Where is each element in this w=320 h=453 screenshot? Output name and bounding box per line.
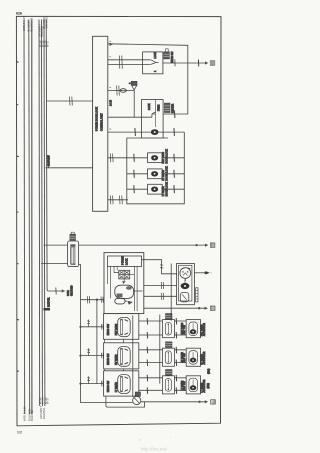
connector C10 tick row1 right <box>173 154 176 162</box>
wire w3 <box>139 389 186 391</box>
bus label L2 bottom <box>28 409 34 421</box>
key switch box <box>162 320 174 338</box>
svg-text:BLU/BLK: BLU/BLK <box>40 25 44 37</box>
connector C2 on loop wire y114 <box>173 110 176 118</box>
svg-text:POWER: POWER <box>121 256 124 265</box>
svg-text:BLU/BLK: BLU/BLK <box>42 407 46 419</box>
knob switch S2 box <box>104 314 139 340</box>
wire U2 to key sw y285.4 <box>144 284 177 286</box>
tap wire w2 <box>81 383 104 385</box>
connector C15 at U1 exit y199.8 <box>110 196 113 205</box>
ticks left of key switch <box>146 347 148 366</box>
svg-text:BLU/WHT: BLU/WHT <box>47 155 50 166</box>
svg-text:RT REAR: RT REAR <box>115 354 118 365</box>
svg-text:BLK/YEL: BLK/YEL <box>48 297 51 307</box>
actuator M1 box (driver door) <box>142 100 164 139</box>
pin specks at U1 exits <box>109 41 111 129</box>
border frame <box>16 16 221 426</box>
connector C14 tick row3 right <box>173 185 176 193</box>
wire drop x96.9 <box>96 300 98 384</box>
connector tick y296.3 <box>161 293 164 300</box>
connector C11 tick row2 <box>133 170 136 178</box>
svg-text:DOOR LOCK: DOOR LOCK <box>166 149 169 164</box>
border tick y156 <box>17 155 19 158</box>
tap tick at box edge <box>102 324 104 330</box>
junction dot y245 <box>195 244 197 246</box>
wire drop x159.8 <box>159 315 161 384</box>
svg-text:GROUND: GROUND <box>70 285 73 296</box>
svg-text:ACTUATOR: ACTUATOR <box>203 351 206 364</box>
connector arrow on wire y44 <box>110 43 113 46</box>
svg-text:KEY SW: KEY SW <box>183 324 186 334</box>
svg-text:ACTUATOR: ACTUATOR <box>203 379 206 392</box>
svg-text:LOCK: LOCK <box>154 52 157 59</box>
connector tick y299.7 <box>87 296 90 303</box>
border tick y319 <box>17 318 19 321</box>
svg-text:GRN/RED: GRN/RED <box>45 16 49 29</box>
connector arrow symbol <box>131 81 137 85</box>
ground wire bottom right y401.4 <box>141 401 206 403</box>
connector C3 double tick <box>119 56 122 69</box>
connector ticks y90.5 <box>117 86 120 96</box>
door assembly group box <box>127 132 185 204</box>
inter-row link wires x123.5 <box>123 339 125 371</box>
connector block on wire y308 <box>166 314 173 320</box>
actuator M1 switch detail <box>142 112 156 117</box>
S2 inner element <box>118 317 131 336</box>
control unit U1 box <box>93 36 108 211</box>
actuator M2 box <box>148 153 163 163</box>
svg-text:LOCK: LOCK <box>148 103 151 110</box>
connector C8 at U1 exit <box>110 154 113 163</box>
svg-text:(GM): (GM) <box>207 383 210 389</box>
transistor arrow <box>122 281 126 284</box>
connector C13 tick row3 <box>133 185 136 193</box>
connector bar across bus <box>44 308 51 311</box>
border tick y371 <box>17 370 19 373</box>
tap tick at box edge <box>102 353 104 359</box>
wire corner node at y156 <box>47 156 49 168</box>
svg-text:LT REAR: LT REAR <box>115 382 118 392</box>
junction dot x96.9 <box>96 299 98 301</box>
arrow head y308 <box>205 307 208 310</box>
arrow head ground wire <box>62 289 65 292</box>
connector C7 tick <box>173 128 176 136</box>
connector C9 tick row1 <box>133 154 136 162</box>
junction dot y401.4 <box>198 401 200 403</box>
connector arrow lead <box>133 90 135 117</box>
svg-text:ACTUATOR: ACTUATOR <box>203 323 206 336</box>
continuation symbol III y308 <box>210 306 215 310</box>
actuator M7 box <box>186 376 200 394</box>
arrow head y272.8 <box>207 271 210 274</box>
knob switch S6 box <box>104 371 139 396</box>
wire w1 <box>139 320 186 322</box>
wire to U2 y299.7 <box>81 299 105 301</box>
ground bus wire x132.8 <box>132 316 134 398</box>
fuse F1 element <box>71 247 75 264</box>
svg-text:KEY SW: KEY SW <box>183 381 186 391</box>
tap wire w2 <box>81 326 104 328</box>
continuation symbol III y245 <box>210 243 215 247</box>
arrow head y401.4 <box>205 400 208 403</box>
tap stub connector <box>87 320 90 327</box>
bus label group lower <box>38 40 50 47</box>
arrow head y63 <box>205 61 208 64</box>
border tick y263 <box>17 262 19 265</box>
ticks right of key switch <box>175 375 177 394</box>
relay feed wires <box>114 266 124 281</box>
wire U1 to actuator M1 y117.2 <box>108 116 142 118</box>
wire U2 to key sw y296.3 <box>144 295 177 297</box>
bus label L2 top <box>27 18 34 32</box>
wire y308 to III <box>144 307 206 309</box>
actuator M4 motor <box>151 187 158 192</box>
wire U2 top to key sw <box>142 260 177 274</box>
connector C5 icon <box>164 103 170 112</box>
bus wire 1 <box>23 20 26 415</box>
fuse F1 contact blobs <box>70 244 75 246</box>
tap tick at box edge <box>102 381 104 387</box>
transistor Q1 stadium <box>115 285 134 298</box>
ground wire bottom left y402.6 <box>81 402 133 404</box>
svg-text:.ne: .ne <box>137 438 142 442</box>
svg-text:POWER DOOR LOCK: POWER DOOR LOCK <box>95 107 98 131</box>
wire U1 out y44 to loop <box>108 44 188 114</box>
wire row3 y189.5 <box>127 188 185 190</box>
tap wire w2 <box>81 355 104 357</box>
S4 inner element <box>118 347 131 367</box>
wire key sw out y272.8 <box>194 272 205 274</box>
actuator M1 motor <box>151 129 159 135</box>
svg-text:W/BLK 1.25: W/BLK 1.25 <box>23 406 27 421</box>
wire w1 <box>139 349 186 351</box>
connector C12 tick row2 right <box>173 170 176 178</box>
wire U1 to row1 y156.6 <box>108 157 185 159</box>
tap stub connector <box>87 376 90 383</box>
inline capsule <box>120 89 126 93</box>
continuation symbol III y63 <box>210 61 215 65</box>
wedge arrow <box>127 301 133 305</box>
wire U1 out y199.8 <box>108 199 128 201</box>
key switch box <box>162 376 174 394</box>
relay K1 grid <box>119 270 130 279</box>
switch S1 box <box>143 52 163 74</box>
actuator M4 box <box>148 184 163 194</box>
svg-text:FREE: FREE <box>157 104 160 111</box>
border tick y212 <box>17 211 19 214</box>
wire through M1 motor y132.1 <box>108 131 185 133</box>
wire S1 out y63 <box>163 62 206 64</box>
U2 internal wires <box>108 266 143 311</box>
continuation symbol III y401.4 <box>211 400 216 404</box>
svg-text:KEY SW: KEY SW <box>183 353 186 363</box>
ticks left of key switch <box>146 375 148 394</box>
connector tick x176 <box>174 59 176 66</box>
wire drop x171.2 <box>170 264 172 321</box>
svg-text:CONTROL UNIT: CONTROL UNIT <box>100 113 103 131</box>
svg-text:KNOB SW: KNOB SW <box>107 353 110 365</box>
wire fuse drop x80.5 <box>79 265 81 403</box>
svg-text:FRT PASS: FRT PASS <box>115 323 118 335</box>
ticks right of key switch <box>175 347 177 366</box>
knob switch S4 box <box>104 343 139 369</box>
wire w1 <box>139 377 186 379</box>
ticks right of key switch <box>175 318 177 339</box>
actuator M3 motor <box>151 171 158 176</box>
wire U1 to switch S1 y64.4 <box>108 63 143 65</box>
key switch box <box>162 348 174 366</box>
wire w3 <box>139 362 186 364</box>
bus wire 5 <box>41 20 44 407</box>
S6 inner element <box>118 375 131 394</box>
junction dot y308 <box>198 307 200 309</box>
connector block above S7 <box>166 370 173 376</box>
actuator M2 motor <box>151 155 158 160</box>
fuse F1 top connector block <box>70 234 76 240</box>
svg-text:W-37: W-37 <box>46 397 50 404</box>
svg-text:KNOB SW: KNOB SW <box>107 323 110 335</box>
connector bar right of U3 <box>196 288 199 302</box>
wire bus4 to fuse y263.5 <box>41 263 67 265</box>
svg-text:DOOR LOCK: DOOR LOCK <box>166 166 169 181</box>
ticks left of key switch <box>146 318 148 339</box>
control unit U2 box <box>104 253 144 314</box>
wire w3 <box>139 334 186 336</box>
connector ticks at U2 left edge <box>101 297 103 303</box>
fuse F1 box <box>68 241 79 267</box>
svg-text:14 13: 14 13 <box>109 99 112 106</box>
connector tick y285.4 <box>161 282 164 289</box>
bus label group mid <box>37 24 44 37</box>
wire fuse out long y245 <box>79 244 206 246</box>
tap stub connector <box>87 348 90 355</box>
wire row2 y173.8 <box>127 173 185 175</box>
svg-text:DOOR LOCK: DOOR LOCK <box>166 182 169 197</box>
actuator M6 box <box>186 348 200 366</box>
bus wire 4 <box>38 20 41 407</box>
connector C16 tick y199.8 <box>120 196 123 205</box>
key unit motor <box>181 283 190 289</box>
svg-text:.v: .v <box>169 435 172 439</box>
svg-text:http://tns.ws/: http://tns.ws/ <box>141 447 168 452</box>
connector tick on ground wire <box>55 288 57 295</box>
connector tick on drop <box>160 265 163 268</box>
connector C6 tick <box>134 128 137 136</box>
border tick y61 <box>16 61 18 64</box>
switch S1 contacts <box>143 60 159 65</box>
bus wire 7 <box>46 20 48 292</box>
actuator M5 box <box>186 320 200 338</box>
key cylinder switch <box>180 268 191 279</box>
wire bus5 to fuse y245.4 <box>44 244 68 246</box>
ground G2 circle <box>133 396 141 404</box>
arrow head y245 <box>205 244 208 247</box>
bus label group top upper <box>42 16 49 29</box>
key cylinder unit U3 box <box>177 264 195 305</box>
wire U1 branch y90.5 <box>108 90 134 92</box>
bus label group bottom <box>38 397 50 419</box>
ground wire G1 y291 <box>48 290 64 292</box>
connector bar x198.5 <box>197 60 199 67</box>
wire bus7 to U1 at y101 <box>47 100 93 102</box>
border tick y104 <box>17 103 19 106</box>
svg-text:BLK/YEL B: BLK/YEL B <box>30 18 34 32</box>
svg-text:LOCK: LOCK <box>125 258 128 265</box>
junction dot y272.8 <box>204 271 207 274</box>
svg-text:W/BLK 1.25: W/BLK 1.25 <box>22 16 26 31</box>
svg-text:KNOB SW: KNOB SW <box>171 51 174 63</box>
actuator M3 box <box>148 169 163 179</box>
inter-row link wires left <box>104 339 106 371</box>
svg-text:(GM): (GM) <box>207 368 210 374</box>
wire bus7 to U1 at y167.5 <box>46 167 93 169</box>
assembly outline bottom corner <box>106 396 145 407</box>
connector block above ground <box>135 392 140 396</box>
connector block above S5 <box>166 342 173 348</box>
bus wire 3 <box>31 20 33 415</box>
transistor Q2 stadium <box>115 298 125 304</box>
connector C4 icon <box>166 49 169 52</box>
bus label L1 top <box>22 16 26 31</box>
control unit U2 inner label box <box>108 256 142 267</box>
bus label L1 bottom <box>23 406 27 421</box>
wire U1 to switch S1 y59.8 <box>108 59 143 61</box>
svg-text:W-37: W-37 <box>46 40 50 47</box>
connector C1 on wire y101 <box>70 97 73 106</box>
svg-text:626: 626 <box>17 431 22 435</box>
key unit switch block <box>180 293 189 302</box>
bus wire 6 <box>43 20 46 407</box>
svg-text:BLK/YEL: BLK/YEL <box>30 409 34 421</box>
bus wire 2 <box>28 20 31 415</box>
svg-text:DRIVER: DRIVER <box>172 104 175 113</box>
svg-text:KNOB SW: KNOB SW <box>107 380 110 392</box>
